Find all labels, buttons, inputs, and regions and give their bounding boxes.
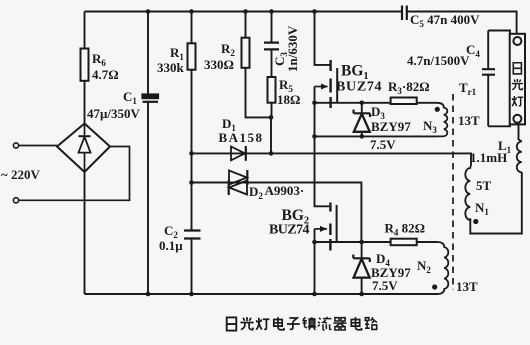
svg-text:R3·82Ω: R3·82Ω	[388, 79, 430, 96]
winding N1 (5T)	[465, 166, 491, 224]
svg-text:1.1mH: 1.1mH	[470, 150, 507, 165]
AC source terminals ~220V	[1, 143, 41, 203]
node BG2 source	[312, 240, 317, 245]
wire D4 leads	[361, 242, 363, 294]
transformer core Tr1 (dashed)	[453, 80, 477, 290]
svg-text:BA158: BA158	[219, 130, 263, 145]
node rail-BG1 drain	[312, 9, 317, 14]
node D3 cathode	[360, 101, 365, 106]
node rail-D4 anode	[359, 292, 364, 297]
svg-text:BZY97: BZY97	[371, 119, 411, 134]
diac D2 A9903	[229, 170, 305, 201]
transistor BG1 BUZ74 (MOSFET)	[315, 60, 382, 108]
svg-text:4.7Ω: 4.7Ω	[92, 67, 119, 82]
winding N3 (13T)	[423, 103, 480, 137]
svg-text:BUZ74: BUZ74	[269, 223, 310, 238]
svg-text:4.7n/1500V: 4.7n/1500V	[407, 53, 470, 68]
bridge rectifier	[57, 124, 110, 173]
node D3 anode	[360, 134, 365, 139]
resistor R3 82 ohm	[388, 79, 430, 104]
wire AC bottom terminal to bridge right vertex	[19, 147, 130, 201]
capacitor C5	[402, 6, 480, 30]
svg-text:0.1μ: 0.1μ	[159, 238, 183, 253]
node N3 bottom left	[312, 134, 317, 139]
svg-text:13T: 13T	[458, 113, 480, 128]
wire top rail right segment to lamp	[407, 12, 517, 34]
wire AC top terminal to bridge	[19, 145, 57, 147]
wire BG1 drain lead	[315, 12, 331, 65]
svg-text:BUZ74: BUZ74	[336, 80, 382, 95]
svg-text:330Ω: 330Ω	[204, 57, 234, 72]
node rail-C3	[269, 9, 274, 14]
svg-text:7.5V: 7.5V	[372, 278, 398, 293]
wire R2 column and bend to node	[246, 12, 272, 118]
zener D3 BZY97 7.5V	[354, 104, 412, 152]
lamp label ri guang deng	[513, 63, 521, 74]
svg-text:1n/630V: 1n/630V	[285, 25, 300, 72]
capacitor C4	[407, 42, 495, 75]
zener D4 BZY97 7.5V	[353, 251, 411, 293]
wire D2 line to BG2 gate node	[192, 183, 362, 241]
wire BG2 source line to R4 and N2	[315, 241, 438, 243]
wire N1 bottom to L1 bottom	[470, 172, 522, 233]
node D1 cathode	[269, 151, 274, 156]
wire bottom rail	[85, 293, 439, 295]
svg-text:330k: 330k	[157, 60, 185, 75]
node R1-D1-C2	[189, 151, 194, 156]
resistor R4 82 ohm	[385, 221, 426, 246]
wire top rail left segment	[85, 11, 402, 13]
wire R6 column (bridge + output up through R6)	[84, 12, 86, 124]
capacitor C2	[159, 223, 201, 253]
capacitor C1 (electrolytic)	[87, 89, 159, 121]
node BG1 source	[312, 101, 317, 106]
node rail-C1 bottom	[146, 292, 151, 297]
resistor R2	[204, 38, 250, 72]
wire BG2 gate vertical to bottom rail	[314, 229, 316, 294]
svg-text:7.5V: 7.5V	[370, 137, 396, 152]
diode D1 BA158	[219, 116, 263, 161]
wire D3 leads	[361, 103, 363, 137]
wire BG1 source line to R3 and N3	[315, 102, 438, 104]
fluorescent lamp (tube)	[510, 34, 525, 125]
resistor R1	[157, 43, 196, 75]
wire midpoint line (D1 line) to N1	[192, 153, 472, 166]
transistor BG2 BUZ74 (MOSFET)	[269, 203, 345, 251]
node rail-BG2 source	[312, 292, 317, 297]
svg-text:18Ω: 18Ω	[277, 92, 300, 107]
node R1-D2	[189, 180, 194, 185]
svg-text:A9903·: A9903·	[265, 183, 305, 198]
wire C3 / R5 column	[271, 12, 273, 118]
node D4 cathode	[359, 240, 364, 245]
node rail-C1	[146, 9, 151, 14]
resistor R5	[268, 77, 301, 107]
svg-text:5T: 5T	[476, 178, 492, 193]
svg-text:47μ/350V: 47μ/350V	[87, 106, 140, 121]
node rail-R1	[189, 9, 194, 14]
wire C1 column	[147, 12, 149, 295]
svg-text:R4 82Ω: R4 82Ω	[385, 221, 426, 238]
svg-text:~ 220V: ~ 220V	[1, 167, 41, 182]
wire node to D1 line	[270, 117, 272, 153]
svg-text:13T: 13T	[456, 279, 478, 294]
caption title: ri guang deng dian zi zhen liu qi dian lu	[227, 317, 377, 331]
resistor R6	[81, 49, 119, 83]
node rail-C2 bottom	[189, 292, 194, 297]
wire R1 / C2 column	[191, 12, 193, 295]
wire lamp bottom to L1	[519, 124, 522, 141]
inductor L1 1.1mH	[470, 138, 522, 172]
wire bridge bottom vertex to bottom rail	[84, 172, 86, 294]
winding N2 (13T)	[417, 242, 478, 294]
wire BG1 gate/source vertical down to BG2 drain bend	[315, 87, 330, 207]
wire C4 column and taps to lamp	[488, 31, 510, 127]
node R2-R5	[269, 115, 274, 120]
capacitor C3	[264, 25, 300, 72]
node rail-R2	[243, 9, 248, 14]
wire N3 bottom line	[315, 135, 438, 137]
